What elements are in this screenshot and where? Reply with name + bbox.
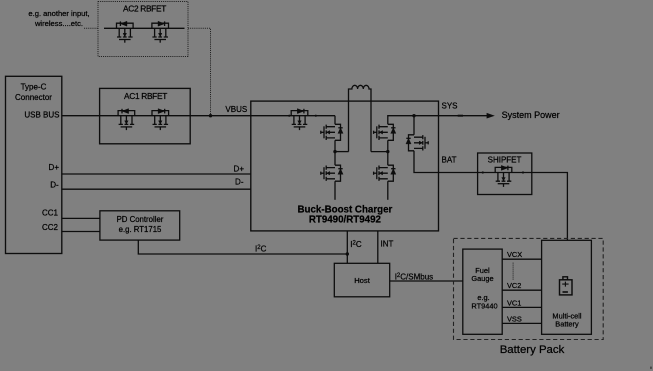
wire: BATFET drain lead bbox=[413, 116, 415, 135]
wire: I2C/SMbus host to fuel gauge bbox=[390, 280, 463, 282]
svg-text:PD Controller: PD Controller bbox=[117, 215, 164, 224]
MOSFET SHIPFET bbox=[495, 165, 512, 187]
svg-text:I2C/SMbus: I2C/SMbus bbox=[395, 273, 433, 282]
wire: Q3 drain to SYS rail bbox=[388, 116, 439, 125]
MOSFET AC1-A bbox=[118, 109, 135, 130]
svg-text:D+: D+ bbox=[234, 165, 245, 174]
junction dot right switch node bbox=[386, 150, 389, 153]
svg-text:VBUS: VBUS bbox=[225, 105, 247, 114]
wire: I2C from PD controller to charger/host bbox=[138, 240, 347, 254]
svg-text:System Power: System Power bbox=[502, 110, 560, 120]
svg-text:SYS: SYS bbox=[442, 102, 458, 111]
wire: BAT to SHIPFET bbox=[439, 172, 478, 174]
wire: D- bbox=[62, 188, 251, 190]
label Type-C Connector bbox=[15, 82, 52, 102]
svg-text:Host: Host bbox=[354, 276, 371, 285]
svg-text:wireless....etc.: wireless....etc. bbox=[34, 19, 83, 28]
Buck-Boost Charger box bbox=[251, 101, 439, 231]
svg-text:Battery Pack: Battery Pack bbox=[500, 344, 565, 356]
svg-text:SHIPFET: SHIPFET bbox=[488, 156, 522, 165]
terminal dot SHIPFET right bbox=[522, 171, 524, 173]
wire: VC1 bbox=[502, 306, 541, 308]
wire: Q1 source to switch node bbox=[334, 140, 336, 165]
svg-text:D-: D- bbox=[235, 177, 244, 186]
label Buck-Boost Charger RT9490/RT9492 bbox=[297, 205, 392, 226]
svg-text:VC2: VC2 bbox=[507, 281, 521, 290]
SHIPFET box bbox=[478, 153, 532, 195]
svg-text:VC1: VC1 bbox=[507, 299, 521, 308]
junction dot AC2/VBUS bbox=[209, 114, 212, 117]
junction dot left switch node bbox=[333, 150, 336, 153]
wire: VSS bbox=[502, 322, 541, 324]
AC1 RBFET box bbox=[100, 88, 191, 143]
svg-text:CC1: CC1 bbox=[42, 209, 59, 218]
wire: Q4 source lead bbox=[387, 181, 389, 200]
wire: dotted AC2 output to VBUS bbox=[188, 28, 211, 114]
MOSFET AC2-A bbox=[117, 21, 134, 42]
svg-text:RT9490/RT9492: RT9490/RT9492 bbox=[309, 215, 382, 226]
transistor Q4 (boost low-side) bbox=[374, 165, 396, 181]
ACFET Q-AC bbox=[291, 109, 308, 130]
wire: Q1 drain lead bbox=[334, 116, 336, 125]
svg-text:e.g. another input,: e.g. another input, bbox=[28, 9, 89, 18]
wire: segment join tick on SYS line bbox=[458, 115, 463, 117]
wire: dotted cell continuation bbox=[512, 263, 514, 280]
svg-text:USB BUS: USB BUS bbox=[24, 111, 59, 120]
Battery Pack dashed box bbox=[454, 238, 604, 339]
wire: left switch node to inductor bbox=[335, 151, 349, 153]
svg-text:BAT: BAT bbox=[442, 156, 457, 165]
svg-text:AC2 RBFET: AC2 RBFET bbox=[123, 3, 166, 13]
wire: charger internal VBUS rail bbox=[251, 115, 335, 117]
wire: CC2 bbox=[62, 231, 100, 233]
label Fuel Gauge e.g. RT9440 bbox=[471, 266, 497, 311]
junction dot I2C bbox=[346, 252, 349, 255]
transistor Q3 (boost high-side) bbox=[374, 124, 396, 140]
wire: dotted note-to-AC2 lead bbox=[84, 27, 98, 29]
svg-text:Battery: Battery bbox=[555, 320, 579, 329]
inductor L1 bbox=[349, 85, 372, 151]
battery icon bbox=[560, 277, 573, 295]
svg-text:VCX: VCX bbox=[507, 250, 522, 259]
svg-text:VSS: VSS bbox=[507, 314, 522, 323]
wire: VCX bbox=[502, 258, 541, 260]
wire: BATFET source to BAT pin bbox=[414, 151, 439, 173]
transistor Q2 (buck low-side) bbox=[321, 165, 343, 181]
svg-text:RT9440: RT9440 bbox=[471, 302, 497, 311]
svg-text:Connector: Connector bbox=[15, 93, 52, 102]
stray mark at lower-right (screenshot artifact) bbox=[650, 367, 652, 369]
svg-text:CC2: CC2 bbox=[42, 223, 59, 232]
MOSFET AC1-B bbox=[152, 109, 169, 130]
wire: AC2 internal bbox=[104, 27, 185, 29]
label PD Controller e.g. RT1715 bbox=[117, 215, 164, 234]
terminal dot ACFET right bbox=[315, 115, 317, 117]
wire: SHIPFET internal bbox=[478, 172, 532, 174]
Multi-cell battery box bbox=[542, 240, 592, 334]
wire: INT (charger to host) bbox=[377, 231, 379, 263]
wire: SYS output arrow bbox=[439, 115, 489, 117]
note: alternate input annotation bbox=[28, 9, 89, 28]
terminal dot SHIPFET left bbox=[482, 171, 484, 173]
wire: VBUS (USB BUS to charger) bbox=[62, 115, 251, 117]
svg-text:D+: D+ bbox=[49, 163, 60, 172]
label Multi-cell Battery bbox=[552, 312, 582, 329]
svg-text:I2C: I2C bbox=[350, 240, 362, 249]
MOSFET AC2-B bbox=[152, 21, 169, 42]
PD controller box bbox=[100, 211, 180, 240]
svg-text:I2C: I2C bbox=[255, 245, 267, 254]
wire: I2C vertical (charger to host) bbox=[346, 231, 348, 263]
Host box bbox=[334, 263, 389, 297]
wire: D+ bbox=[62, 173, 251, 175]
AC2 RBFET dotted box bbox=[98, 2, 188, 57]
wire: SHIPFET to battery bbox=[532, 173, 568, 241]
svg-text:Type-C: Type-C bbox=[21, 82, 47, 91]
wire: VC2 bbox=[502, 289, 541, 291]
svg-text:INT: INT bbox=[381, 240, 394, 249]
Type-C connector box bbox=[6, 76, 62, 253]
transistor Q1 (buck high-side) bbox=[321, 124, 343, 140]
wire: Q2 source lead bbox=[334, 181, 336, 200]
arrowhead System Power bbox=[487, 113, 495, 119]
svg-text:Gauge: Gauge bbox=[471, 274, 493, 283]
wire: inductor to right switch node bbox=[371, 151, 388, 153]
wire: Q3 source to switch node bbox=[387, 140, 389, 165]
junction dot BATFET/SYS bbox=[412, 114, 415, 117]
wire: CC1 bbox=[62, 217, 100, 219]
transistor BATFET bbox=[406, 135, 428, 151]
svg-text:D-: D- bbox=[50, 180, 59, 189]
Fuel Gauge box bbox=[463, 249, 502, 334]
svg-text:AC1 RBFET: AC1 RBFET bbox=[124, 91, 167, 101]
terminal dot ACFET left bbox=[288, 115, 290, 117]
svg-text:e.g. RT1715: e.g. RT1715 bbox=[119, 225, 162, 234]
